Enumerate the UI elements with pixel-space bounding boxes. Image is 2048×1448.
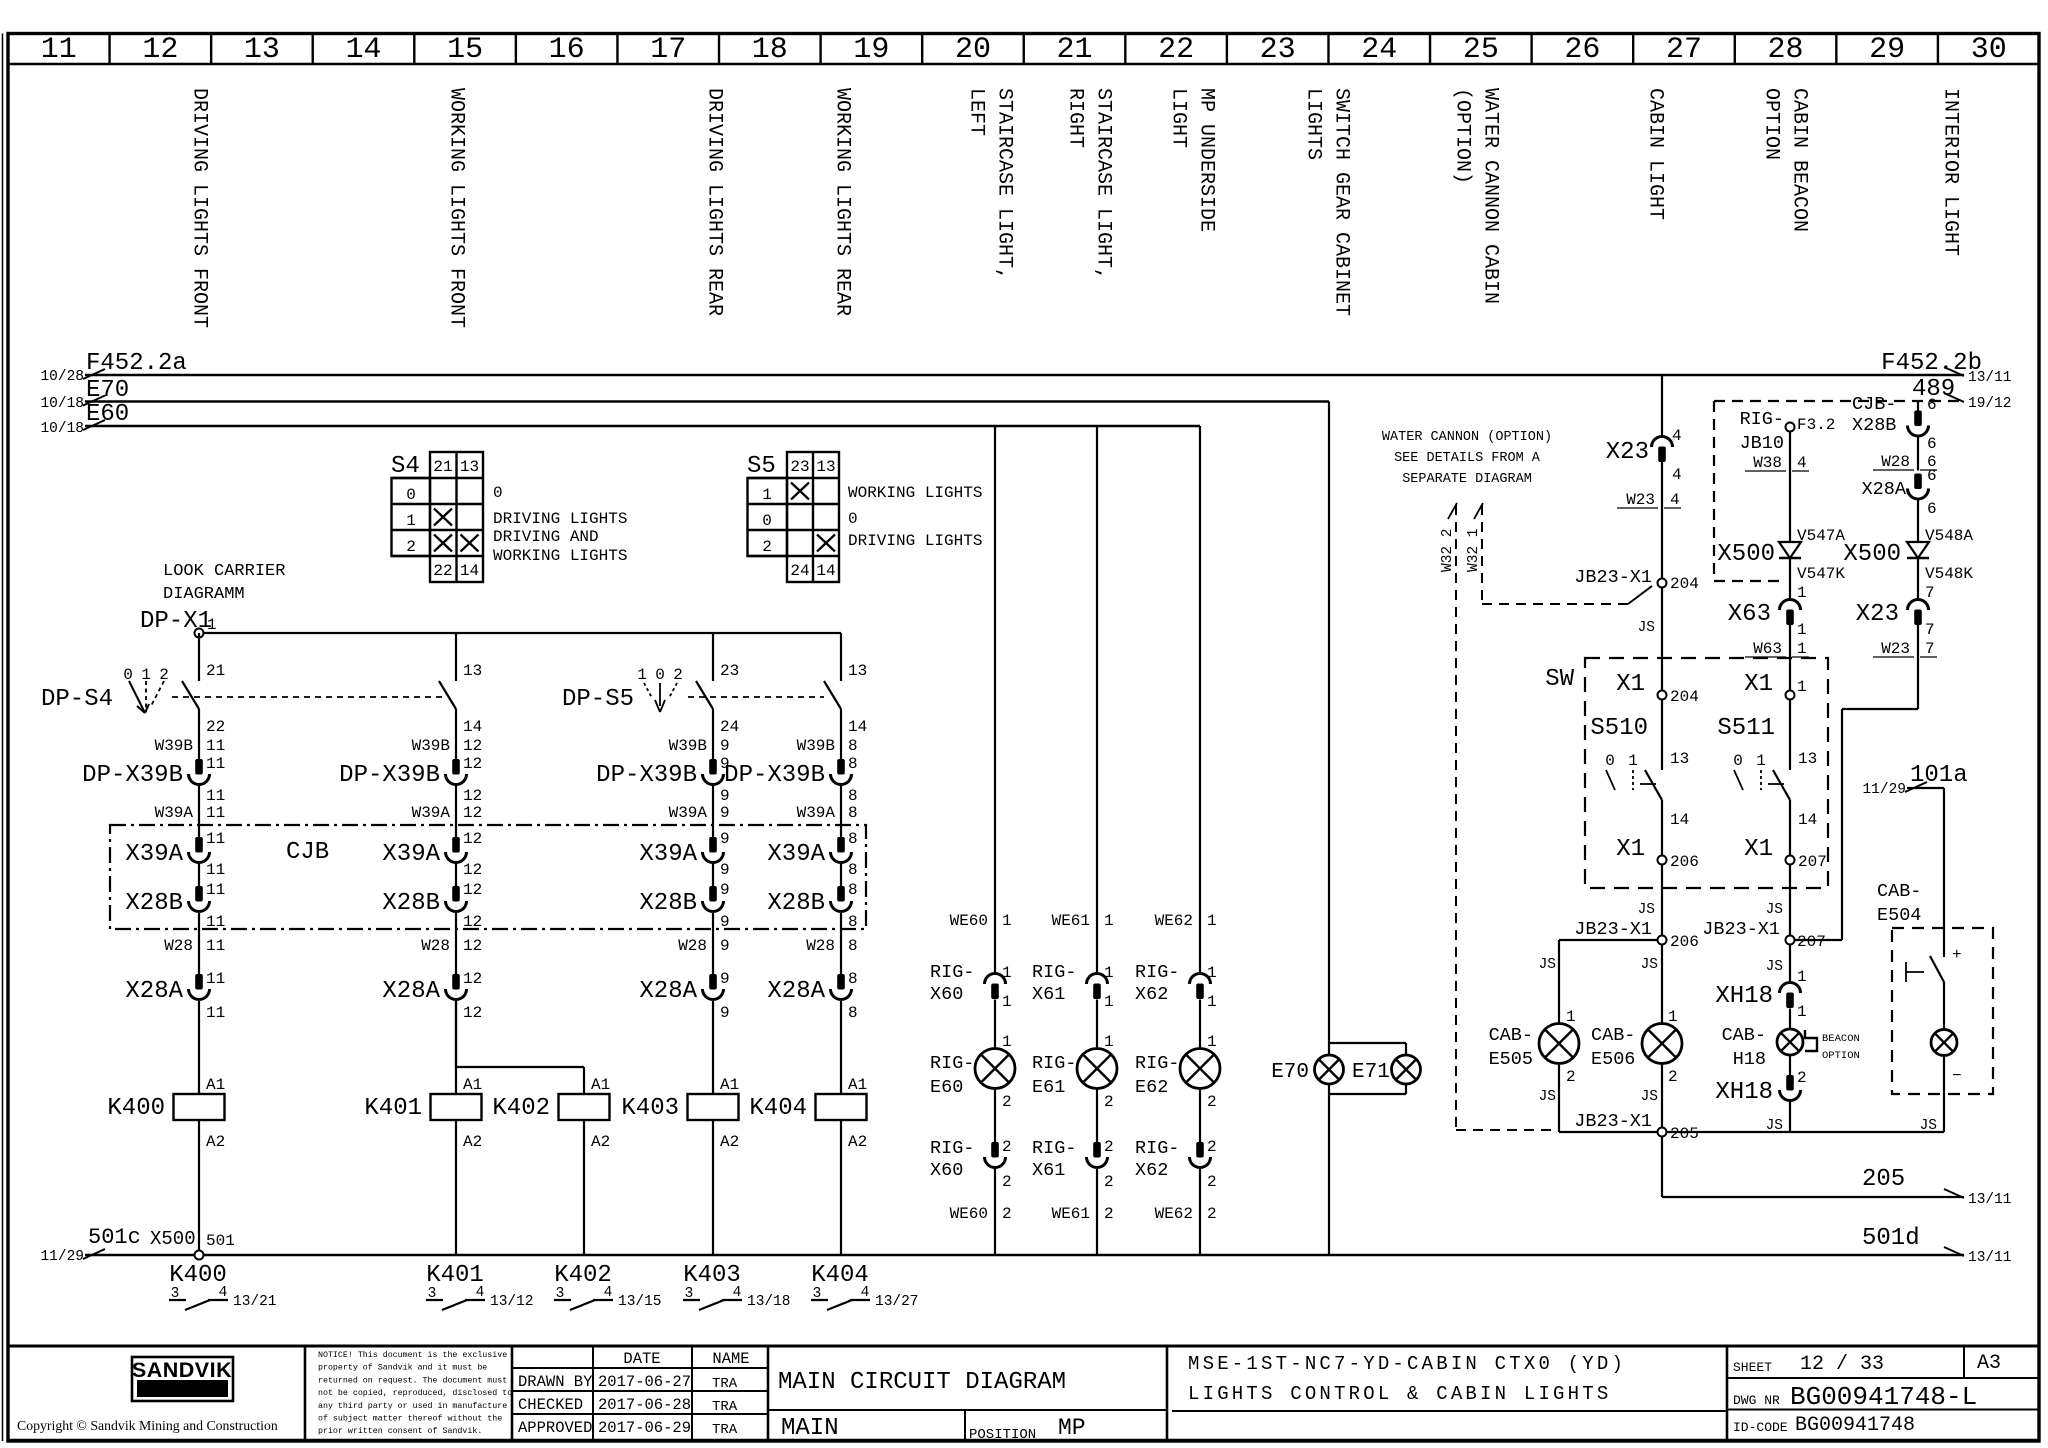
svg-text:8: 8: [848, 804, 858, 822]
contact K404 3-4: [811, 1262, 919, 1310]
connector DP-X39B pin 12: [339, 755, 482, 805]
svg-text:6: 6: [1927, 467, 1937, 485]
svg-text:CJB-: CJB-: [1852, 394, 1896, 415]
svg-text:1: 1: [1797, 1003, 1807, 1021]
svg-text:2: 2: [1797, 1069, 1807, 1087]
svg-text:11: 11: [206, 787, 225, 805]
svg-text:2: 2: [1207, 1138, 1217, 1156]
wire: [455, 912, 457, 975]
cable W32 wire 2 dashed option line: [1440, 503, 1556, 1130]
svg-text:14: 14: [460, 562, 479, 580]
svg-text:13: 13: [1670, 750, 1689, 768]
svg-text:ID-CODE: ID-CODE: [1733, 1420, 1788, 1435]
svg-text:W39B: W39B: [412, 737, 450, 755]
svg-text:206: 206: [1670, 853, 1699, 871]
svg-text:1: 1: [1002, 993, 1012, 1011]
svg-text:W23: W23: [1881, 640, 1910, 658]
svg-text:LOOK CARRIER: LOOK CARRIER: [163, 562, 285, 581]
svg-text:F3.2: F3.2: [1797, 416, 1835, 434]
svg-text:A1: A1: [463, 1076, 482, 1094]
svg-text:8: 8: [848, 861, 858, 879]
svg-text:19/12: 19/12: [1968, 396, 2012, 412]
svg-text:F452.2a: F452.2a: [86, 350, 187, 377]
lamp RIG-E61: [1032, 1033, 1117, 1111]
connector DP-X1 pin 1 and feed bus: [140, 608, 841, 638]
net 501 bus 501c-501d: [40, 1225, 2011, 1266]
connector RIG-X61 pin 2: [1032, 1138, 1114, 1191]
svg-text:X28A: X28A: [639, 978, 697, 1005]
svg-text:10/28: 10/28: [40, 369, 84, 385]
contact K402 3-4: [554, 1262, 662, 1310]
svg-text:13/11: 13/11: [1968, 1192, 2012, 1208]
svg-text:1: 1: [1628, 752, 1638, 770]
svg-text:X500: X500: [1843, 541, 1901, 568]
cable WE60 wire 1: [950, 912, 1012, 930]
svg-text:WATER CANNON (OPTION): WATER CANNON (OPTION): [1382, 430, 1552, 445]
svg-text:DP-S5: DP-S5: [562, 686, 634, 713]
svg-text:6: 6: [1927, 396, 1937, 414]
svg-text:RIG-: RIG-: [1032, 1138, 1076, 1159]
svg-text:APPROVED: APPROVED: [518, 1419, 592, 1437]
svg-text:MAIN CIRCUIT DIAGRAM: MAIN CIRCUIT DIAGRAM: [778, 1369, 1066, 1396]
svg-text:14: 14: [346, 33, 382, 67]
svg-text:1: 1: [406, 512, 416, 530]
svg-text:2: 2: [1104, 1205, 1114, 1223]
svg-text:13/12: 13/12: [490, 1294, 534, 1310]
svg-text:9: 9: [720, 937, 730, 955]
svg-text:WORKING LIGHTS REAR: WORKING LIGHTS REAR: [831, 88, 854, 316]
svg-text:26: 26: [1564, 33, 1600, 67]
svg-text:RIG-: RIG-: [1135, 962, 1179, 983]
svg-text:2: 2: [406, 538, 416, 556]
svg-text:A2: A2: [848, 1133, 867, 1151]
svg-text:SHEET: SHEET: [1733, 1360, 1772, 1375]
svg-text:7: 7: [1925, 584, 1935, 602]
svg-text:25: 25: [1463, 33, 1499, 67]
svg-text:12: 12: [463, 861, 482, 879]
svg-text:9: 9: [720, 881, 730, 899]
svg-text:MP UNDERSIDE: MP UNDERSIDE: [1195, 88, 1218, 232]
connector RIG-X60 pin 2: [930, 1138, 1012, 1191]
svg-text:11: 11: [206, 970, 225, 988]
svg-text:0: 0: [1605, 752, 1615, 770]
net 205 exit: [1662, 1137, 2012, 1209]
svg-text:4: 4: [1797, 454, 1807, 472]
svg-text:4: 4: [1672, 427, 1682, 445]
svg-text:X63: X63: [1728, 601, 1771, 628]
svg-text:SWITCH GEAR CABINET: SWITCH GEAR CABINET: [1330, 88, 1353, 316]
connector X28B pin 9: [639, 881, 729, 931]
svg-text:X62: X62: [1135, 1160, 1168, 1181]
svg-text:X60: X60: [930, 984, 963, 1005]
svg-text:9: 9: [720, 737, 730, 755]
svg-text:DRIVING LIGHTS FRONT: DRIVING LIGHTS FRONT: [188, 88, 211, 328]
svg-text:13: 13: [463, 662, 482, 680]
junction box CJB boundary: [110, 825, 866, 929]
svg-text:A2: A2: [463, 1133, 482, 1151]
svg-text:2017-06-27: 2017-06-27: [598, 1373, 691, 1391]
svg-text:SW: SW: [1545, 666, 1574, 693]
svg-text:X28B: X28B: [382, 890, 440, 917]
connector X28B pin 8: [767, 881, 857, 931]
svg-text:12: 12: [463, 1004, 482, 1022]
svg-text:1: 1: [1756, 752, 1766, 770]
switch DP-S4 pole 21-22: [41, 633, 225, 759]
svg-text:1: 1: [1002, 1033, 1012, 1051]
connector X28A pin 9: [639, 970, 729, 1022]
connector X23 pin 7: [1856, 558, 1935, 639]
svg-text:X39A: X39A: [125, 841, 183, 868]
svg-text:JS: JS: [1539, 1089, 1556, 1105]
svg-text:9: 9: [720, 804, 730, 822]
svg-text:0: 0: [493, 484, 503, 502]
svg-text:501: 501: [206, 1232, 235, 1250]
net WE60 drop wire: [994, 426, 996, 974]
svg-text:W28: W28: [1881, 453, 1910, 471]
svg-text:W39B: W39B: [797, 737, 835, 755]
svg-text:1: 1: [1207, 1033, 1217, 1051]
svg-text:MAIN: MAIN: [781, 1415, 839, 1442]
svg-text:S510: S510: [1590, 715, 1648, 742]
svg-text:8: 8: [848, 755, 858, 773]
svg-text:E61: E61: [1032, 1077, 1065, 1098]
svg-text:A1: A1: [591, 1076, 610, 1094]
svg-text:NOTICE! This document is the e: NOTICE! This document is the exclusive: [318, 1350, 507, 1360]
switch position table S4: [391, 452, 627, 582]
svg-text:W28: W28: [164, 937, 193, 955]
svg-text:SEE DETAILS FROM A: SEE DETAILS FROM A: [1394, 451, 1541, 466]
svg-text:0: 0: [762, 512, 772, 530]
svg-text:501d: 501d: [1862, 1225, 1920, 1252]
svg-text:JB23-X1: JB23-X1: [1574, 1111, 1652, 1132]
svg-text:X23: X23: [1856, 601, 1899, 628]
svg-text:13: 13: [1798, 750, 1817, 768]
connector X63 pin 1: [1728, 558, 1807, 639]
junction JB23-X1 205: [1574, 1111, 1699, 1143]
svg-text:10/18: 10/18: [40, 396, 84, 412]
svg-text:X28B: X28B: [125, 890, 183, 917]
lamp E71 parallel branch: [1329, 1043, 1421, 1094]
svg-text:JS: JS: [1641, 1089, 1658, 1105]
svg-text:0: 0: [655, 666, 665, 684]
svg-text:21: 21: [433, 458, 452, 476]
svg-text:X1: X1: [1744, 671, 1773, 698]
connector X28B pin 11: [125, 881, 225, 931]
svg-text:CAB-: CAB-: [1591, 1025, 1635, 1046]
connector X23 pin 4: [1606, 427, 1682, 484]
svg-text:JS: JS: [1766, 959, 1783, 975]
svg-text:2: 2: [1668, 1068, 1678, 1086]
svg-text:11/29: 11/29: [40, 1249, 84, 1265]
relay coil K401: [364, 1000, 482, 1256]
svg-text:MP: MP: [1058, 1415, 1086, 1441]
svg-text:RIG-: RIG-: [1032, 962, 1076, 983]
svg-text:207: 207: [1797, 933, 1826, 951]
svg-text:1: 1: [1797, 621, 1807, 639]
svg-text:JB23-X1: JB23-X1: [1574, 567, 1652, 588]
svg-text:X39A: X39A: [639, 841, 697, 868]
junction JB23-X1 204: [1574, 567, 1699, 593]
svg-text:W28: W28: [421, 937, 450, 955]
svg-text:2: 2: [1566, 1068, 1576, 1086]
lamp RIG-E60: [930, 1033, 1015, 1111]
svg-text:2: 2: [1207, 1205, 1217, 1223]
svg-text:207: 207: [1798, 853, 1827, 871]
svg-text:E60: E60: [930, 1077, 963, 1098]
svg-text:11: 11: [206, 937, 225, 955]
cable WE61 wire 1: [1052, 912, 1114, 930]
junction X1 204: [1616, 671, 1699, 706]
svg-text:A2: A2: [591, 1133, 610, 1151]
svg-text:DRAWN BY: DRAWN BY: [518, 1373, 593, 1391]
svg-text:12: 12: [463, 755, 482, 773]
svg-text:RIG-: RIG-: [1135, 1138, 1179, 1159]
cable W28 wire 6: [1873, 436, 1937, 471]
svg-text:W28: W28: [678, 937, 707, 955]
svg-text:V547K: V547K: [1797, 565, 1845, 583]
svg-text:A2: A2: [720, 1133, 739, 1151]
svg-text:TRA: TRA: [712, 1376, 738, 1392]
svg-text:X28B: X28B: [639, 890, 697, 917]
svg-text:OPTION: OPTION: [1822, 1050, 1860, 1062]
svg-text:2: 2: [1207, 1173, 1217, 1191]
svg-text:11: 11: [41, 33, 77, 67]
wire JS: [1638, 588, 1662, 691]
svg-text:204: 204: [1670, 575, 1699, 593]
svg-text:1: 1: [1797, 968, 1807, 986]
svg-text:1: 1: [207, 616, 217, 634]
svg-text:8: 8: [848, 1004, 858, 1022]
svg-text:A2: A2: [206, 1133, 225, 1151]
svg-text:of subject matter thereof with: of subject matter thereof without the: [318, 1414, 502, 1424]
cable W28 wire 11: [164, 937, 225, 955]
svg-text:TRA: TRA: [712, 1399, 738, 1415]
column label WORKING LIGHTS FRONT: [445, 88, 468, 328]
svg-text:BEACON: BEACON: [1822, 1033, 1860, 1045]
svg-text:RIG-: RIG-: [1135, 1053, 1179, 1074]
svg-text:V548K: V548K: [1925, 565, 1973, 583]
wire: [1096, 1089, 1098, 1143]
svg-text:12: 12: [463, 881, 482, 899]
column label CABIN LIGHT: [1644, 88, 1667, 220]
svg-text:K401: K401: [364, 1095, 422, 1122]
svg-text:1: 1: [1104, 993, 1114, 1011]
switch DP-S4 pole 13-14: [439, 633, 482, 759]
svg-text:SANDVIK: SANDVIK: [132, 1358, 232, 1382]
svg-text:X28B: X28B: [767, 890, 825, 917]
cable WE61 wire 2: [1052, 1205, 1114, 1223]
svg-text:LEFT: LEFT: [965, 88, 988, 136]
mechanical link DP-S4: [172, 696, 445, 698]
svg-text:2: 2: [1002, 1205, 1012, 1223]
svg-text:11: 11: [206, 861, 225, 879]
wire: [712, 863, 714, 887]
svg-text:11: 11: [206, 830, 225, 848]
svg-text:X60: X60: [930, 1160, 963, 1181]
cable W32 wire 1 dashed option line: [1466, 503, 1652, 604]
svg-text:13/15: 13/15: [618, 1294, 662, 1310]
svg-text:2: 2: [1207, 1093, 1217, 1111]
svg-text:20: 20: [955, 33, 991, 67]
svg-text:Copyright © Sandvik Mining and: Copyright © Sandvik Mining and Construct…: [17, 1418, 278, 1433]
svg-text:1: 1: [1797, 678, 1807, 696]
svg-text:DIAGRAMM: DIAGRAMM: [163, 585, 245, 604]
cable W39B wire 12: [412, 737, 483, 755]
svg-text:WE61: WE61: [1052, 912, 1090, 930]
svg-text:4: 4: [219, 1285, 228, 1301]
contact K403 3-4: [683, 1262, 791, 1310]
switch S510: [1590, 700, 1689, 856]
svg-text:11: 11: [206, 1004, 225, 1022]
svg-text:A1: A1: [720, 1076, 739, 1094]
svg-text:8: 8: [848, 937, 858, 955]
svg-text:22: 22: [433, 562, 452, 580]
wire: [455, 863, 457, 887]
diode V548 X500: [1843, 499, 1973, 583]
svg-text:X1: X1: [1744, 836, 1773, 863]
svg-text:NAME: NAME: [712, 1350, 749, 1368]
svg-text:4: 4: [1672, 466, 1682, 484]
connector RIG-X62 pin 1: [1135, 962, 1217, 1011]
svg-text:9: 9: [720, 787, 730, 805]
svg-text:prior written consent of Sandv: prior written consent of Sandvik.: [318, 1426, 482, 1436]
svg-text:4: 4: [861, 1285, 870, 1301]
svg-text:14: 14: [848, 718, 867, 736]
wire: [198, 912, 200, 975]
svg-text:1: 1: [1566, 1008, 1576, 1026]
svg-text:−: −: [1952, 1067, 1962, 1085]
cable W39A wire 11: [155, 804, 226, 822]
switch S511: [1717, 700, 1817, 856]
svg-text:13/27: 13/27: [875, 1294, 919, 1310]
lamp CAB-E504: [1920, 1030, 1962, 1135]
junction X1 207: [1744, 836, 1827, 871]
svg-text:X61: X61: [1032, 1160, 1065, 1181]
svg-text:205: 205: [1670, 1125, 1699, 1143]
contact K400 3-4: [169, 1262, 277, 1310]
connector X28A pin 8: [767, 970, 857, 1022]
svg-text:11: 11: [206, 737, 225, 755]
svg-text:13: 13: [848, 662, 867, 680]
relay coil K400: [107, 1000, 225, 1256]
svg-text:1: 1: [1104, 1033, 1114, 1051]
svg-text:E505: E505: [1489, 1049, 1533, 1070]
wire: [455, 785, 457, 838]
svg-text:4: 4: [476, 1285, 485, 1301]
svg-text:205: 205: [1862, 1166, 1905, 1193]
svg-text:JS: JS: [1539, 957, 1556, 973]
svg-text:204: 204: [1670, 688, 1699, 706]
svg-text:DP-X39B: DP-X39B: [339, 762, 440, 789]
relay coil K403: [621, 1000, 739, 1256]
svg-text:E60: E60: [86, 401, 129, 428]
svg-text:OPTION: OPTION: [1760, 88, 1783, 160]
svg-text:WE61: WE61: [1052, 1205, 1090, 1223]
svg-text:24: 24: [790, 562, 809, 580]
svg-text:10/18: 10/18: [40, 421, 84, 437]
svg-text:CJB: CJB: [286, 839, 329, 866]
svg-text:RIG-: RIG-: [1032, 1053, 1076, 1074]
svg-text:WE62: WE62: [1155, 1205, 1193, 1223]
wire: [1096, 1000, 1098, 1049]
svg-text:7: 7: [1925, 640, 1935, 658]
mechanical link DP-S5: [688, 696, 824, 698]
relay coil K404: [749, 1000, 867, 1256]
wire: [198, 785, 200, 838]
svg-text:DRIVING AND: DRIVING AND: [493, 528, 599, 546]
net WE61 drop wire: [1096, 426, 1098, 974]
svg-text:W39A: W39A: [155, 804, 194, 822]
svg-text:0: 0: [1733, 752, 1743, 770]
svg-text:WATER CANNON CABIN: WATER CANNON CABIN: [1479, 88, 1502, 304]
svg-text:8: 8: [848, 881, 858, 899]
svg-text:not be copied, reproduced, dis: not be copied, reproduced, disclosed to: [318, 1388, 512, 1398]
svg-text:CABIN LIGHT: CABIN LIGHT: [1644, 88, 1667, 220]
svg-text:X28A: X28A: [1862, 479, 1907, 500]
svg-text:property of Sandvik and it mus: property of Sandvik and it must be: [318, 1363, 487, 1373]
svg-text:K402: K402: [492, 1095, 550, 1122]
svg-text:12: 12: [463, 830, 482, 848]
svg-text:(OPTION): (OPTION): [1451, 88, 1474, 184]
svg-text:E62: E62: [1135, 1077, 1168, 1098]
svg-text:E504: E504: [1877, 905, 1921, 926]
wire cabin light drop from F452.2: [1661, 375, 1663, 437]
svg-text:24: 24: [1361, 33, 1397, 67]
svg-text:X62: X62: [1135, 984, 1168, 1005]
svg-text:INTERIOR LIGHT: INTERIOR LIGHT: [1939, 88, 1962, 256]
svg-text:CHECKED: CHECKED: [518, 1396, 583, 1414]
svg-text:2: 2: [1002, 1093, 1012, 1111]
switch DP-S5 pole 23-24: [562, 633, 739, 759]
svg-text:K404: K404: [749, 1095, 807, 1122]
svg-text:23: 23: [720, 662, 739, 680]
wire: [840, 912, 842, 975]
svg-text:21: 21: [206, 662, 225, 680]
svg-text:4: 4: [1670, 491, 1680, 509]
interior light CAB-E504 option box: [1877, 881, 1993, 1094]
svg-text:W32 1: W32 1: [1466, 528, 1482, 572]
svg-text:9: 9: [720, 970, 730, 988]
svg-text:V547A: V547A: [1797, 527, 1845, 545]
svg-text:13/11: 13/11: [1968, 370, 2012, 386]
svg-text:W39A: W39A: [797, 804, 836, 822]
svg-text:0: 0: [406, 486, 416, 504]
svg-text:DRIVING LIGHTS REAR: DRIVING LIGHTS REAR: [703, 88, 726, 316]
svg-text:13/18: 13/18: [747, 1294, 791, 1310]
svg-text:V548A: V548A: [1925, 527, 1973, 545]
wire: [1199, 1000, 1201, 1049]
svg-text:JB10: JB10: [1740, 433, 1784, 454]
svg-text:DRIVING LIGHTS: DRIVING LIGHTS: [493, 510, 627, 528]
svg-text:W39B: W39B: [155, 737, 193, 755]
svg-text:S511: S511: [1717, 715, 1775, 742]
cable W39B wire 11: [155, 737, 226, 755]
svg-text:JS: JS: [1766, 902, 1783, 918]
svg-text:XH18: XH18: [1715, 983, 1773, 1010]
svg-text:1: 1: [1207, 912, 1217, 930]
net 101a entry: [1862, 762, 1967, 928]
svg-text:7: 7: [1925, 621, 1935, 639]
cable W28 wire 9: [678, 937, 729, 955]
column label CABIN BEACON: [1760, 88, 1811, 232]
connector X28B pin 12: [382, 881, 482, 931]
svg-text:12: 12: [463, 937, 482, 955]
svg-text:11/29: 11/29: [1862, 782, 1906, 798]
wire JS: [1766, 865, 1790, 936]
svg-text:9: 9: [720, 861, 730, 879]
svg-text:2: 2: [1104, 1138, 1114, 1156]
svg-text:14: 14: [463, 718, 482, 736]
